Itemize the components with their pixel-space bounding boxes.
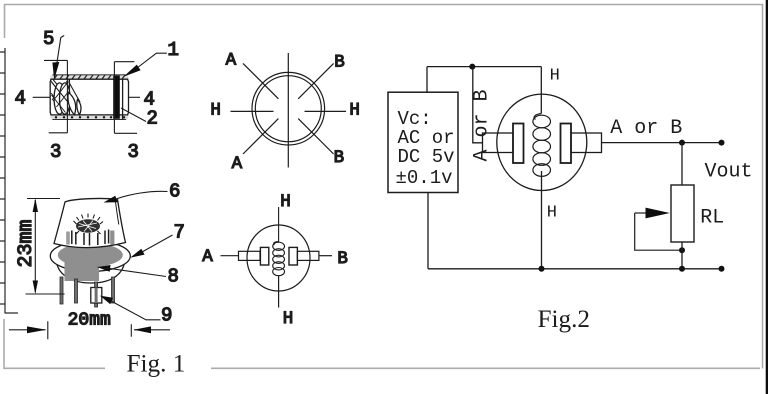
svg-text:4: 4: [15, 88, 26, 110]
svg-text:H: H: [280, 192, 291, 212]
heater coil: [533, 114, 551, 177]
heater element inside dome: [76, 219, 100, 233]
svg-text:B: B: [334, 148, 345, 168]
junction node dot output: [679, 140, 685, 146]
svg-text:DC 5v: DC 5v: [398, 146, 455, 168]
dome cap (item 6): [54, 198, 126, 247]
resistor RL body: [671, 185, 694, 242]
bottom band dots: [55, 116, 125, 118]
svg-text:B: B: [337, 249, 348, 269]
bracket line left (item 3 extent): [44, 60, 67, 132]
wire H top drop: [540, 67, 542, 114]
gray post left: [66, 232, 70, 245]
23mm dimension line: [26, 199, 65, 295]
element small lens: [77, 100, 81, 115]
top rail wire: [427, 66, 541, 68]
sensor bottom view outer circle: [252, 72, 325, 145]
svg-text:A: A: [202, 247, 213, 267]
svg-text:Fig.2: Fig.2: [538, 306, 591, 333]
node dot Vout terminal: [719, 140, 725, 146]
leader for 9: [112, 302, 161, 320]
wire sensor output to node: [602, 142, 722, 144]
wire from box top to top rail: [426, 67, 428, 93]
leader for 1: [137, 53, 167, 68]
pin 1: [60, 277, 63, 304]
svg-text:20mm: 20mm: [68, 311, 111, 331]
svg-text:5: 5: [43, 28, 54, 50]
cap cross hatch over element: [52, 82, 69, 113]
svg-text:B: B: [334, 52, 345, 72]
sensing element ellipse 2: [60, 83, 71, 114]
svg-text:6: 6: [169, 181, 180, 203]
pin B lead wire: [319, 255, 332, 257]
wire H bottom drop: [541, 171, 543, 269]
pin H right spoke: [305, 110, 347, 112]
svg-text:9: 9: [161, 305, 172, 327]
cylinder bottom crimp band: [50, 114, 128, 116]
leader for 5: [56, 36, 65, 72]
sensing element ellipse 1: [54, 83, 65, 114]
pin 2: [75, 279, 78, 303]
leader for 4 left: [33, 96, 50, 98]
svg-text:A: A: [232, 154, 243, 174]
left electrode plate: [513, 124, 524, 164]
electrode black bar (item 2): [113, 76, 120, 119]
spacer line right of bar: [122, 79, 124, 120]
wire from box bottom: [427, 193, 429, 269]
element lens shape: [68, 93, 76, 115]
wiper arrow of RL: [635, 212, 648, 214]
svg-text:H: H: [283, 309, 294, 329]
sensor bottom view inner circle: [255, 76, 321, 142]
heater coil: [273, 207, 285, 276]
svg-text:H: H: [349, 101, 360, 121]
power source box Vc: [388, 92, 458, 192]
cylinder top crimp band: [50, 75, 128, 79]
element support posts: [72, 230, 109, 246]
wire RL bottom to ground rail: [681, 242, 683, 269]
junction dot H-bottom: [539, 266, 545, 272]
center line vertical: [287, 53, 289, 168]
leader for 8: [110, 269, 166, 277]
svg-text:8: 8: [168, 266, 179, 288]
sensor body circle: [497, 94, 587, 190]
pin 3: [95, 282, 98, 307]
pin 3 sleeve (item 9): [91, 288, 102, 304]
svg-text:A or B: A or B: [610, 117, 682, 140]
pin 4: [112, 277, 115, 303]
pin B terminal box: [297, 251, 319, 260]
bottom rail wire: [428, 268, 722, 270]
flange gray top surface: [58, 243, 123, 267]
pin A terminal box: [483, 133, 514, 153]
pin A lead wire: [221, 255, 239, 257]
20mm dimension line: [9, 321, 170, 339]
leader for 7: [142, 235, 173, 252]
pin A top-left spoke: [243, 63, 278, 98]
sensor base body: [56, 258, 125, 283]
bracket line right (item 3 extent): [114, 62, 137, 134]
pin B top-right spoke: [298, 63, 333, 98]
pin B bottom-right spoke: [298, 119, 333, 154]
svg-text:RL: RL: [700, 207, 724, 230]
svg-text:±0.1v: ±0.1v: [396, 167, 453, 189]
wire node to RL: [681, 143, 683, 185]
element diagonal wire: [69, 82, 81, 103]
svg-text:H: H: [550, 67, 560, 86]
sensor symbol circle: [247, 225, 310, 291]
svg-text:3: 3: [50, 141, 61, 163]
wire A-or-B vertical: [473, 67, 483, 143]
gray post right: [110, 231, 114, 245]
dome crease: [115, 201, 119, 225]
junction dot RL bottom rail: [679, 266, 685, 272]
svg-text:7: 7: [174, 222, 185, 244]
leader for 6: [116, 191, 168, 199]
leader for 4 right: [129, 96, 141, 98]
flange ring (item 7): [50, 241, 130, 272]
left electrode plate: [260, 247, 268, 265]
svg-text:1: 1: [168, 39, 179, 61]
svg-text:Fig. 1: Fig. 1: [127, 351, 186, 378]
right electrode plate: [289, 247, 297, 265]
sensor core cylinder body: [50, 75, 128, 119]
svg-text:23mm: 23mm: [15, 219, 38, 267]
junction node dot: [469, 64, 475, 70]
svg-text:H: H: [210, 101, 221, 121]
svg-text:Vout: Vout: [705, 160, 753, 183]
pin H bottom lead wire: [278, 276, 280, 308]
right electrode plate: [561, 124, 572, 164]
anti-explosion mesh seal (hatched left cap): [51, 80, 69, 113]
left cap divider: [68, 79, 70, 115]
junction dot below RL: [679, 247, 685, 253]
svg-text:H: H: [547, 204, 557, 223]
pin H left spoke: [231, 110, 274, 112]
gray body slab (item 8): [65, 257, 100, 282]
leader for 2: [121, 108, 146, 122]
svg-text:3: 3: [128, 141, 139, 163]
pin A terminal box: [239, 251, 261, 260]
svg-text:A: A: [226, 50, 237, 70]
pin B terminal box: [571, 133, 602, 153]
pin A bottom-left spoke: [243, 119, 278, 154]
wiper return wire: [635, 213, 682, 250]
node dot rail end: [719, 266, 725, 272]
svg-text:2: 2: [147, 108, 158, 130]
top band hatch marks: [54, 75, 125, 79]
